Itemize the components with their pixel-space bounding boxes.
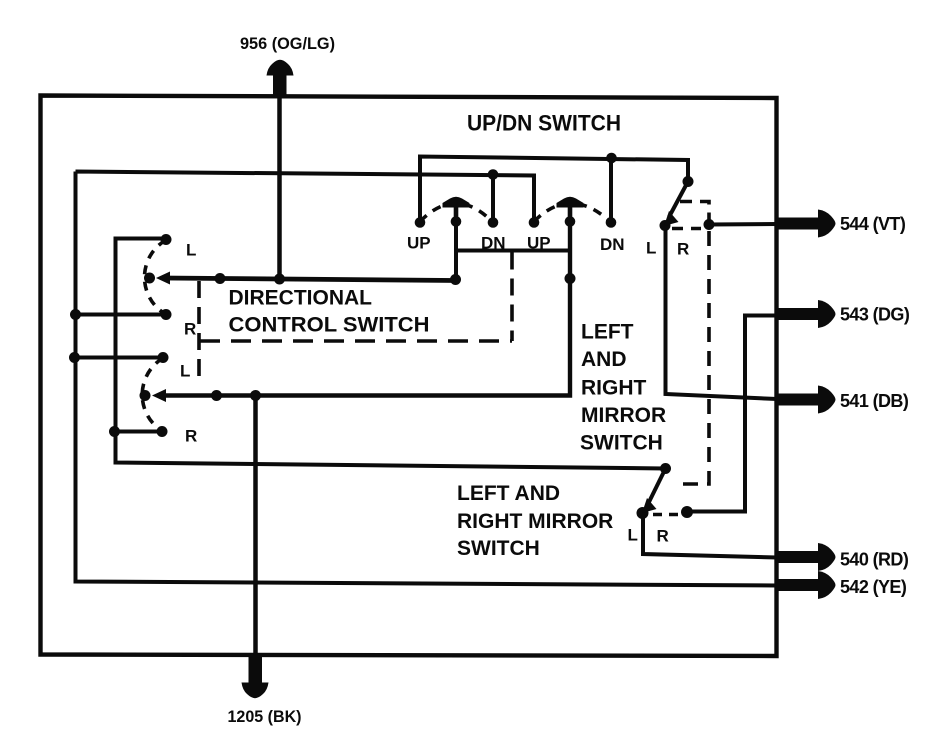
svg-text:RIGHT: RIGHT [581,377,647,400]
svg-text:L: L [180,362,190,381]
svg-text:1205 (BK): 1205 (BK) [228,707,302,726]
svg-text:DIRECTIONAL: DIRECTIONAL [229,287,373,310]
svg-text:AND: AND [581,348,627,371]
svg-text:UP/DN SWITCH: UP/DN SWITCH [467,111,621,136]
svg-text:541 (DB): 541 (DB) [840,391,909,411]
svg-text:MIRROR: MIRROR [581,404,666,427]
svg-text:540 (RD): 540 (RD) [840,550,909,570]
svg-text:542 (YE): 542 (YE) [840,577,907,597]
svg-text:UP: UP [407,234,431,253]
svg-text:DN: DN [481,234,506,253]
svg-text:LEFT AND: LEFT AND [457,482,560,505]
svg-text:R: R [657,527,669,546]
svg-text:L: L [646,239,656,258]
svg-text:L: L [186,241,196,260]
svg-text:R: R [184,320,196,339]
svg-text:CONTROL SWITCH: CONTROL SWITCH [229,314,430,337]
svg-text:543 (DG): 543 (DG) [840,305,910,325]
svg-text:UP: UP [527,234,551,253]
svg-text:R: R [677,240,689,259]
svg-text:544 (VT): 544 (VT) [840,214,906,234]
svg-text:R: R [185,427,197,446]
svg-text:RIGHT MIRROR: RIGHT MIRROR [457,510,613,533]
svg-text:L: L [628,526,638,545]
svg-text:SWITCH: SWITCH [580,432,663,455]
svg-text:DN: DN [600,235,625,254]
svg-text:SWITCH: SWITCH [457,537,540,560]
svg-text:LEFT: LEFT [581,321,634,344]
svg-text:956 (OG/LG): 956 (OG/LG) [240,34,335,53]
